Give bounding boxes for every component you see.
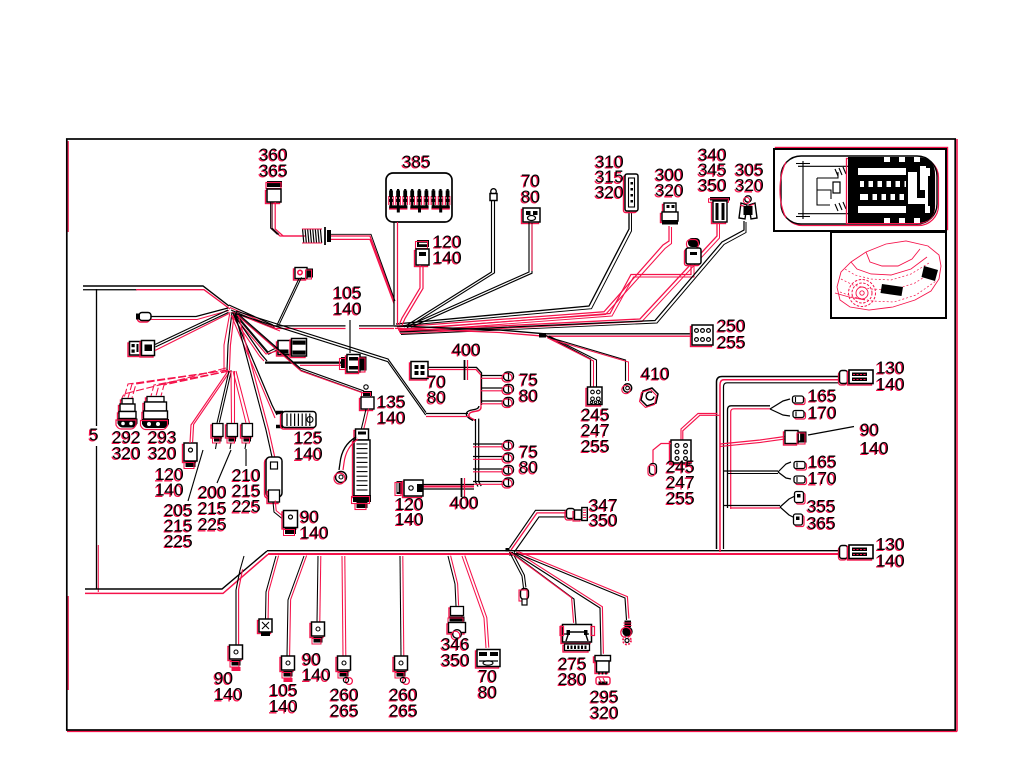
svg-text:80: 80 bbox=[427, 387, 446, 407]
svg-text:385: 385 bbox=[402, 152, 431, 172]
svg-text:140: 140 bbox=[300, 523, 329, 543]
svg-text:225: 225 bbox=[198, 514, 227, 534]
svg-text:350: 350 bbox=[589, 510, 618, 530]
svg-text:140: 140 bbox=[876, 551, 905, 571]
svg-text:80: 80 bbox=[519, 386, 538, 406]
svg-text:80: 80 bbox=[519, 457, 538, 477]
svg-text:255: 255 bbox=[666, 488, 695, 508]
svg-text:90: 90 bbox=[860, 420, 879, 440]
svg-text:265: 265 bbox=[389, 701, 418, 721]
svg-text:140: 140 bbox=[377, 408, 406, 428]
svg-text:280: 280 bbox=[558, 669, 587, 689]
svg-text:140: 140 bbox=[860, 438, 889, 458]
svg-text:225: 225 bbox=[232, 496, 261, 516]
svg-text:140: 140 bbox=[433, 248, 462, 268]
svg-text:140: 140 bbox=[302, 665, 331, 685]
svg-text:140: 140 bbox=[333, 299, 362, 319]
svg-text:265: 265 bbox=[330, 701, 359, 721]
svg-text:410: 410 bbox=[641, 364, 670, 384]
svg-text:140: 140 bbox=[294, 444, 323, 464]
svg-text:140: 140 bbox=[269, 696, 298, 716]
svg-text:170: 170 bbox=[808, 403, 837, 423]
svg-text:80: 80 bbox=[478, 682, 497, 702]
svg-text:255: 255 bbox=[717, 332, 746, 352]
svg-text:365: 365 bbox=[259, 161, 288, 181]
svg-text:5: 5 bbox=[89, 425, 99, 445]
svg-text:320: 320 bbox=[148, 443, 177, 463]
svg-text:225: 225 bbox=[164, 531, 193, 551]
svg-text:350: 350 bbox=[698, 175, 727, 195]
svg-text:320: 320 bbox=[595, 182, 624, 202]
svg-text:320: 320 bbox=[735, 175, 764, 195]
svg-text:320: 320 bbox=[112, 443, 141, 463]
svg-text:140: 140 bbox=[155, 480, 184, 500]
svg-text:365: 365 bbox=[807, 513, 836, 533]
svg-text:140: 140 bbox=[395, 509, 424, 529]
svg-text:255: 255 bbox=[581, 436, 610, 456]
svg-text:80: 80 bbox=[521, 187, 540, 207]
svg-text:400: 400 bbox=[450, 493, 479, 513]
svg-text:140: 140 bbox=[214, 684, 243, 704]
svg-text:320: 320 bbox=[590, 703, 619, 723]
svg-text:320: 320 bbox=[655, 180, 684, 200]
svg-text:140: 140 bbox=[876, 374, 905, 394]
svg-text:350: 350 bbox=[441, 650, 470, 670]
svg-text:400: 400 bbox=[452, 340, 481, 360]
svg-text:170: 170 bbox=[808, 468, 837, 488]
